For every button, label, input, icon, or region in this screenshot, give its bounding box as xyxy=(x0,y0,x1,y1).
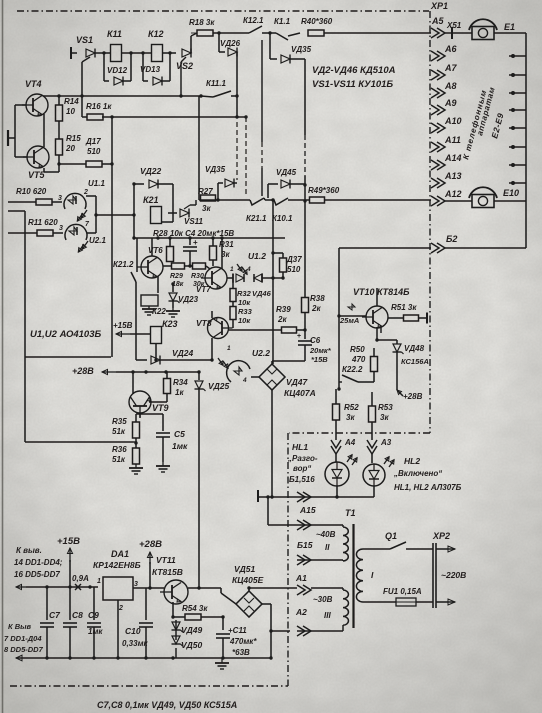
wire R52 down xyxy=(335,420,337,440)
svg-text:R51 3к: R51 3к xyxy=(391,303,417,312)
zener VD23 xyxy=(169,282,199,308)
svg-text:К12: К12 xyxy=(148,29,164,39)
svg-text:R34: R34 xyxy=(173,378,188,387)
svg-text:0,9А: 0,9А xyxy=(72,574,89,583)
text VT10 xyxy=(353,287,410,297)
svg-text:„Включено“: „Включено“ xyxy=(393,469,442,478)
svg-text:К11: К11 xyxy=(107,29,122,39)
wire R53 top xyxy=(372,392,397,406)
wire K12.1-K1.1 xyxy=(268,31,276,34)
text winding I xyxy=(371,570,374,580)
wire VT6 emitter down xyxy=(157,276,159,293)
svg-text:VT5: VT5 xyxy=(28,170,46,180)
svg-text:А10: А10 xyxy=(444,116,462,126)
wire VT5 collector stub xyxy=(44,164,59,172)
thyristor VS1 xyxy=(71,35,95,62)
text winding II xyxy=(316,530,336,552)
relay K11 xyxy=(107,29,122,62)
svg-text:510: 510 xyxy=(87,147,101,156)
chip box U1 U2 xyxy=(25,240,111,357)
svg-text:К11.1: К11.1 xyxy=(206,79,226,88)
svg-text:К Выв: К Выв xyxy=(8,622,32,631)
winding II xyxy=(343,525,348,561)
svg-text:+28В: +28В xyxy=(72,366,94,376)
pin А8 xyxy=(431,81,457,98)
svg-text:VT11: VT11 xyxy=(156,555,176,565)
wire VT11 right xyxy=(182,580,221,588)
thyristor VS11 xyxy=(168,200,204,226)
text XP2 xyxy=(432,531,450,541)
pin А12 xyxy=(431,189,462,206)
svg-text:R50: R50 xyxy=(350,345,365,354)
svg-text:С10: С10 xyxy=(125,626,141,636)
wire А10 to bus xyxy=(509,126,526,130)
diode VD12 loop xyxy=(104,51,133,85)
wire K11-K12 xyxy=(122,51,152,54)
pin А10 xyxy=(431,116,462,133)
+28V label arrow xyxy=(139,539,162,588)
wire bridge left xyxy=(221,588,236,604)
capacitor C10 xyxy=(122,588,153,658)
wire VT4 emitter up xyxy=(43,90,44,97)
contact K10.1 xyxy=(272,198,293,223)
svg-text:вор“: вор“ xyxy=(293,464,311,473)
resistor R34 xyxy=(164,372,189,402)
contact Q1 xyxy=(385,531,433,549)
svg-text:8 DD5-DD7: 8 DD5-DD7 xyxy=(4,645,44,654)
wire R35-R36 junction xyxy=(133,438,138,448)
bridge VD47 xyxy=(259,364,316,398)
svg-text:*63В: *63В xyxy=(232,648,250,657)
resistor R40 xyxy=(301,17,333,36)
diode VD24 xyxy=(136,348,214,365)
svg-text:R53: R53 xyxy=(378,403,393,412)
svg-text:С7,С8 0,1мк VД49, VД50 КС5: С7,С8 0,1мк VД49, VД50 КС515А xyxy=(97,700,237,710)
pin А7 xyxy=(431,63,457,80)
pin A2 xyxy=(295,585,311,617)
optocoupler U1.1 xyxy=(58,179,105,209)
svg-text:1мк: 1мк xyxy=(172,441,188,451)
wire fuse right xyxy=(416,601,433,603)
svg-text:20мк*: 20мк* xyxy=(309,346,332,355)
resistor R18 xyxy=(189,18,215,36)
resistor R35 xyxy=(112,414,140,438)
svg-text:~220В: ~220В xyxy=(441,570,466,580)
pin А14 xyxy=(431,153,462,170)
svg-text:R32: R32 xyxy=(237,289,252,298)
wire VT5 base xyxy=(15,156,27,158)
wire VS1-K11 xyxy=(95,51,111,54)
text T1 xyxy=(345,508,356,518)
wire VD26 down x237 xyxy=(235,52,238,117)
zener VD25 xyxy=(195,370,230,588)
transistor VT7 xyxy=(196,267,227,294)
plug XP2 bars xyxy=(433,543,436,608)
resistor R30 xyxy=(191,263,206,288)
svg-text:VД46: VД46 xyxy=(252,289,272,298)
pin А3 xyxy=(367,438,392,454)
svg-text:VS1-VS11 КУ101Б: VS1-VS11 КУ101Б xyxy=(312,79,393,90)
svg-text:R52: R52 xyxy=(344,403,359,412)
svg-text:3к: 3к xyxy=(202,204,211,213)
wire А11 to bus xyxy=(509,145,526,149)
wire U2.2 to bridge xyxy=(251,376,259,378)
pin А9 xyxy=(431,98,457,115)
terminal XS1 xyxy=(446,21,462,39)
svg-text:20: 20 xyxy=(65,144,75,153)
wire VT9-R34 xyxy=(149,401,199,403)
diode VD26 xyxy=(219,33,241,57)
svg-text:VД45: VД45 xyxy=(276,168,297,177)
svg-text:+28В: +28В xyxy=(403,392,423,401)
wire y117 rail xyxy=(102,115,248,118)
svg-text:С9: С9 xyxy=(88,610,99,620)
capacitor C4 xyxy=(183,238,198,266)
resistor R49 xyxy=(308,186,340,203)
wire А8 to bus xyxy=(509,91,526,95)
svg-text:R49*360: R49*360 xyxy=(308,186,340,195)
wire Б2 to bus xyxy=(445,247,526,249)
zener VD50 xyxy=(172,636,203,658)
transistor VT8 xyxy=(196,318,233,339)
svg-text:VS1: VS1 xyxy=(76,35,93,45)
rail y238 xyxy=(134,236,285,239)
svg-text:КЦ405Е: КЦ405Е xyxy=(232,575,264,585)
svg-text:VD12: VD12 xyxy=(107,66,128,75)
resistor R52 xyxy=(333,403,360,422)
svg-text:VД49: VД49 xyxy=(181,625,203,635)
wire A3-HL2 xyxy=(371,454,373,463)
wire K22.2 to R52 xyxy=(336,387,341,404)
text K vyv bottom xyxy=(4,622,44,654)
wire VT8 base xyxy=(229,327,233,329)
wire top rail y96 xyxy=(43,94,200,97)
wire E1-bus xyxy=(494,32,526,34)
svg-text:А15: А15 xyxy=(299,505,316,515)
wire VT11 emitter xyxy=(171,602,174,619)
svg-text:R28 10к С4 20мк*15В: R28 10к С4 20мк*15В xyxy=(153,229,234,238)
svg-text:14 DD1-DD4;: 14 DD1-DD4; xyxy=(14,558,63,567)
diode VD13 loop xyxy=(140,51,172,85)
svg-text:ХР2: ХР2 xyxy=(432,531,450,541)
relay K12 xyxy=(148,29,164,62)
svg-text:С5: С5 xyxy=(174,429,185,439)
transistor VT4 xyxy=(22,79,48,116)
svg-text:VS11: VS11 xyxy=(184,217,204,226)
svg-text:КЦ407А: КЦ407А xyxy=(284,388,316,398)
svg-text:R10 620: R10 620 xyxy=(16,187,47,196)
svg-text:1мк: 1мк xyxy=(88,627,103,636)
svg-text:R33: R33 xyxy=(238,307,253,316)
wire R40 to XP1 A5 xyxy=(324,32,431,34)
ground symbol xyxy=(215,658,229,669)
svg-text:Е10: Е10 xyxy=(503,188,519,198)
wire left long xyxy=(8,211,133,442)
svg-text:1: 1 xyxy=(97,578,101,585)
ground K22 xyxy=(142,306,156,315)
svg-text:HL1, HL2 АЛ307Б: HL1, HL2 АЛ307Б xyxy=(394,483,462,492)
svg-text:С7: С7 xyxy=(49,610,61,620)
svg-text:3к: 3к xyxy=(346,413,355,422)
svg-text:2к: 2к xyxy=(311,304,321,313)
winding I xyxy=(356,549,363,602)
wire R18 right xyxy=(213,31,249,34)
wire VT9 emitter xyxy=(133,413,166,418)
svg-text:XP1: XP1 xyxy=(430,1,448,11)
diode VD45 xyxy=(268,168,305,198)
wire VT9 collector xyxy=(133,372,135,394)
arrow XP2 top xyxy=(436,546,455,552)
svg-text:U1.1: U1.1 xyxy=(88,179,105,188)
pin А15 xyxy=(297,492,316,515)
zener VD49 xyxy=(172,617,203,640)
relay K23 xyxy=(130,319,178,344)
resistor R51 xyxy=(388,303,427,324)
U1.1 led arrows xyxy=(77,210,87,221)
pin А13 xyxy=(431,171,462,188)
svg-text:16 DD5-DD7: 16 DD5-DD7 xyxy=(14,570,60,579)
svg-text:25мА: 25мА xyxy=(339,316,359,325)
pin Б15 xyxy=(297,520,313,550)
main contact row wire xyxy=(199,198,431,201)
svg-text:~30В: ~30В xyxy=(313,595,333,604)
svg-text:2к: 2к xyxy=(277,315,287,324)
lamp E10 xyxy=(469,187,519,207)
svg-text:R38: R38 xyxy=(310,294,325,303)
text HL1 xyxy=(287,442,318,484)
wire bridge top xyxy=(221,586,297,591)
unit boundary dash-dot top xyxy=(17,10,429,12)
pin А5 xyxy=(431,16,445,38)
resistors R32 R33 xyxy=(230,282,272,328)
svg-text:4: 4 xyxy=(242,377,247,384)
svg-text:Е1: Е1 xyxy=(504,22,515,32)
svg-text:3к: 3к xyxy=(380,413,389,422)
svg-text:VД51: VД51 xyxy=(234,564,256,574)
wire А9 to bus xyxy=(509,108,526,112)
wire bridge right xyxy=(262,604,273,658)
wire C6 to bridge xyxy=(272,361,305,364)
capacitor C11 xyxy=(216,617,257,658)
svg-text:10к: 10к xyxy=(238,298,251,307)
svg-text:+15В: +15В xyxy=(113,321,133,330)
svg-text:К21.2: К21.2 xyxy=(113,260,134,269)
wire VS11 up R27 xyxy=(196,199,199,201)
resistor R54 xyxy=(173,604,225,620)
relay K22 xyxy=(141,295,166,316)
svg-text:2: 2 xyxy=(83,189,88,196)
wire x221 down xyxy=(220,588,222,593)
contact K1.1 xyxy=(274,17,296,40)
wire VS2 to R18 xyxy=(191,33,197,36)
resistor R39 xyxy=(228,305,307,333)
svg-text:VT10 КТ814Б: VT10 КТ814Б xyxy=(353,287,410,297)
svg-text:R54 3к: R54 3к xyxy=(182,604,208,613)
unit boundary dash-dot right xyxy=(429,11,431,433)
wire VT8 emitter down xyxy=(211,338,213,360)
svg-text:Д37: Д37 xyxy=(286,255,302,264)
link line x246 xyxy=(245,117,247,196)
ground rail bottom xyxy=(16,655,273,661)
ground R36 xyxy=(129,464,143,474)
capacitor C9 xyxy=(87,587,103,658)
relay K21 xyxy=(143,195,162,224)
fuse FU1 xyxy=(383,587,422,606)
wire bridge down xyxy=(270,390,273,499)
svg-text:U2.1: U2.1 xyxy=(89,236,106,245)
svg-text:+15В: +15В xyxy=(57,536,80,547)
resistor R50 xyxy=(350,340,378,382)
svg-text:4: 4 xyxy=(246,266,251,273)
svg-text:VД26: VД26 xyxy=(220,39,241,48)
thyristor VS2 xyxy=(176,36,193,96)
lamp E1 xyxy=(469,19,515,39)
svg-text:U2.2: U2.2 xyxy=(252,348,270,358)
svg-text:К1.1: К1.1 xyxy=(274,17,291,26)
zener VD48 xyxy=(393,340,429,390)
svg-text:VД50: VД50 xyxy=(181,640,203,650)
svg-text:R36: R36 xyxy=(112,445,127,454)
wire VT10 collector xyxy=(377,326,381,340)
svg-text:С8: С8 xyxy=(72,610,83,620)
svg-text:А5: А5 xyxy=(431,16,444,26)
wire A4-HL1 xyxy=(335,454,337,462)
wire R14-R15 xyxy=(58,121,60,139)
pin А11 xyxy=(431,135,461,152)
pin Б15 wire xyxy=(268,524,343,526)
svg-text:Б2: Б2 xyxy=(446,234,457,244)
svg-text:R11 620: R11 620 xyxy=(28,218,58,227)
input terminal bar xyxy=(8,130,15,146)
svg-text:VД25: VД25 xyxy=(208,381,230,391)
svg-text:DA1: DA1 xyxy=(111,549,129,559)
+28V arrow diag xyxy=(397,390,423,401)
wire VT10 base xyxy=(339,304,366,325)
svg-text:К10.1: К10.1 xyxy=(272,214,293,223)
svg-text:VД2-VД46 КД510А: VД2-VД46 КД510А xyxy=(312,65,396,76)
svg-text:К21.1: К21.1 xyxy=(246,214,267,223)
svg-text:VД35: VД35 xyxy=(205,165,226,174)
wire R53 down xyxy=(371,422,373,440)
svg-text:VS2: VS2 xyxy=(176,61,193,71)
svg-text:R35: R35 xyxy=(112,417,127,426)
wire R29 junction down xyxy=(169,261,171,266)
svg-text:R18 3к: R18 3к xyxy=(189,18,215,27)
arrow XP2 bottom xyxy=(436,599,455,605)
svg-text:Б15: Б15 xyxy=(297,540,313,550)
wire E10-bus xyxy=(494,200,526,202)
caption bottom xyxy=(97,700,237,710)
transistor VT11 xyxy=(152,555,188,604)
svg-text:U1,U2 АО4103Б: U1,U2 АО4103Б xyxy=(30,329,101,340)
svg-text:VT8: VT8 xyxy=(196,318,212,328)
wire VT6 base xyxy=(141,266,142,268)
resistor R37 xyxy=(271,251,302,279)
wire VS1 gate / R16 left xyxy=(82,62,87,117)
unit boundary dash-dot lamp-panel xyxy=(289,432,430,434)
+15V label arrow xyxy=(57,536,80,587)
text winding III xyxy=(313,595,333,620)
svg-text:+28В: +28В xyxy=(139,539,162,550)
text 220V xyxy=(441,570,466,580)
wire А6 to bus xyxy=(509,54,526,58)
wire А13 to bus xyxy=(509,181,526,185)
svg-text:VД23: VД23 xyxy=(178,295,199,304)
wire А14 to bus xyxy=(509,163,526,167)
bridge VD51 xyxy=(232,564,264,617)
led HL1 xyxy=(325,455,357,486)
wire to R40 xyxy=(288,33,300,36)
svg-text:~40В: ~40В xyxy=(316,530,336,539)
wire right bus x112 xyxy=(110,115,113,357)
svg-text:3: 3 xyxy=(59,225,63,232)
svg-text:К12.1: К12.1 xyxy=(243,16,264,25)
transistor VT5 xyxy=(23,146,49,180)
resistor R10 xyxy=(8,187,62,205)
capacitor C7 xyxy=(40,587,61,658)
svg-text:Т1: Т1 xyxy=(345,508,356,518)
pin A2 wire xyxy=(311,588,343,590)
svg-text:R16 1к: R16 1к xyxy=(86,102,112,111)
capacitor C6 xyxy=(297,330,332,364)
svg-text:+С11: +С11 xyxy=(228,626,247,635)
wire opto pins right xyxy=(86,196,134,233)
svg-text:R14: R14 xyxy=(64,97,79,106)
svg-text:К22.2: К22.2 xyxy=(342,365,363,374)
bus x339 xyxy=(337,248,340,389)
wire y340 xyxy=(375,338,397,341)
wire A2 left xyxy=(271,630,297,632)
contact K21.1 xyxy=(246,198,267,223)
rail DA1-VT11 xyxy=(133,586,201,589)
resistor R29 xyxy=(170,263,185,288)
resistor R14 xyxy=(56,96,80,121)
svg-text:470: 470 xyxy=(351,355,366,364)
svg-text:А4: А4 xyxy=(344,438,356,447)
resistor R16 xyxy=(86,102,112,120)
wire А7 to bus xyxy=(509,73,526,77)
connector XP1 label xyxy=(430,1,448,11)
pin A1 xyxy=(295,555,311,583)
svg-text:VD13: VD13 xyxy=(140,65,161,74)
svg-text:VД24: VД24 xyxy=(172,348,194,358)
opto U1.2 diodes xyxy=(227,266,283,283)
svg-text:R29: R29 xyxy=(170,273,183,280)
svg-text:Д17: Д17 xyxy=(85,137,101,146)
svg-text:Х51: Х51 xyxy=(446,21,462,30)
wire VT8 collector up xyxy=(211,311,213,318)
svg-text:VД48: VД48 xyxy=(404,344,425,353)
svg-text:0,33мк: 0,33мк xyxy=(122,639,148,648)
svg-text:VT6: VT6 xyxy=(148,246,163,255)
svg-text:VT7: VT7 xyxy=(196,285,211,294)
wire x134 vertical xyxy=(132,182,135,239)
link line x237 lower xyxy=(236,122,238,180)
svg-text:1к: 1к xyxy=(175,388,184,397)
svg-text:HL2: HL2 xyxy=(404,456,420,466)
wire A5-E1 xyxy=(445,32,472,34)
capacitor C5 xyxy=(136,414,188,462)
svg-text:А1: А1 xyxy=(295,573,307,583)
chip DA1 xyxy=(93,549,141,612)
wire x305 down xyxy=(303,59,306,203)
wire x199 K11.1 to row xyxy=(198,96,200,200)
svg-text:А9: А9 xyxy=(444,98,457,108)
resistor R36 xyxy=(112,445,140,464)
pin bottom xyxy=(297,626,311,636)
svg-text:А7: А7 xyxy=(444,63,457,73)
diode VD22 xyxy=(134,166,173,189)
